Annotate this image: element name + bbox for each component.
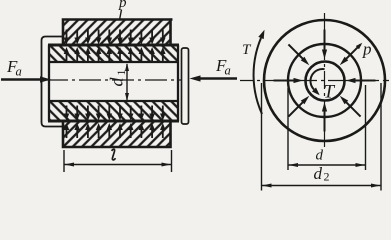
crosshair vertical centerline <box>324 13 326 147</box>
svg-text:a: a <box>16 65 22 79</box>
pressure arrows p upper contact, hub side (pointing down) <box>64 30 166 45</box>
hub lower section (hatched) <box>63 121 171 147</box>
svg-text:d: d <box>107 77 127 87</box>
crosshair horizontal centerline <box>240 80 389 82</box>
shaft outline <box>48 45 179 121</box>
svg-text:1: 1 <box>114 70 128 76</box>
force Fa right arrow <box>190 75 238 81</box>
svg-text:p: p <box>118 0 127 11</box>
dimension l <box>64 150 172 172</box>
label d1 (rotated) <box>107 70 129 87</box>
shaft lower wall (hatched) <box>49 101 178 121</box>
shaft upper wall (hatched) <box>49 45 178 62</box>
dimension d <box>288 85 366 170</box>
dimension d1 (bore) <box>125 63 129 101</box>
hub upper section (hatched) <box>63 20 171 46</box>
dimension d2 <box>262 83 382 191</box>
end view: contact circle d <box>288 44 361 117</box>
outward barb at NE pressure arrow tail (leader for p) <box>356 43 363 50</box>
force Fa left arrow <box>1 76 51 82</box>
torque arc inside bore <box>310 69 324 95</box>
svg-text:p: p <box>362 40 372 59</box>
label l <box>112 149 116 160</box>
centerline left view <box>46 79 181 81</box>
svg-text:a: a <box>225 64 231 78</box>
torque curved arrow outside (left) <box>254 30 265 114</box>
svg-text:T: T <box>324 82 336 103</box>
press tool cup (left thin outline) <box>42 37 64 127</box>
pressure arrows p upper contact, shaft side (pointing up) <box>64 47 166 62</box>
svg-text:d: d <box>316 148 324 164</box>
svg-text:d: d <box>314 164 323 183</box>
svg-text:2: 2 <box>324 170 330 184</box>
pressure arrows p lower contact, shaft side (pointing down) <box>64 106 166 121</box>
end view: outer circle d2 <box>264 20 385 141</box>
end view: bore circle <box>306 62 345 101</box>
pressure arrows p lower contact, hub side (pointing up) <box>64 123 166 138</box>
press plate (right thin bar) <box>182 48 189 124</box>
radial pressure arrows <box>274 30 376 132</box>
